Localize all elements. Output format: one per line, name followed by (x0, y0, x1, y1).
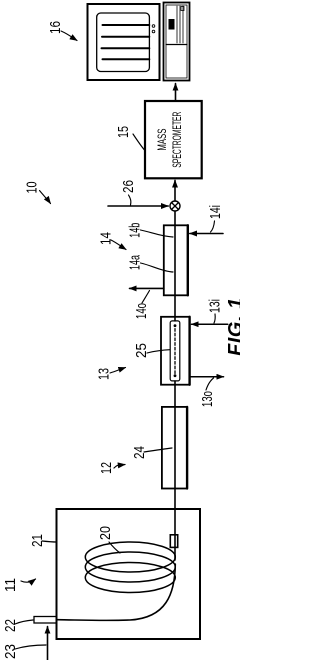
arrow for label 16 (61, 31, 77, 41)
injector fitting 22 on top of chamber (34, 617, 57, 624)
monitor button 1 (152, 30, 155, 33)
arrow for label 10 (40, 191, 51, 204)
monitor button 2 (152, 25, 155, 28)
leader for label 22 (15, 620, 33, 624)
leader for label 26 (129, 195, 131, 205)
svg-text:11: 11 (2, 578, 19, 592)
svg-text:14i: 14i (207, 205, 224, 219)
drive slot line 3 (182, 6, 184, 43)
wire: outlet arrow 14o out of top of box 14 (130, 287, 164, 289)
drive slot line 2 (179, 6, 181, 43)
column coil 20: ellipse 1 (85, 542, 175, 572)
svg-text:14: 14 (98, 232, 115, 245)
svg-text:23: 23 (2, 644, 19, 659)
arrow for label 11 (21, 579, 36, 582)
wire: capillary from coil to injector 22 (57, 564, 175, 620)
svg-text:16: 16 (47, 21, 64, 34)
screen trace line 1 (103, 24, 150, 26)
chamber box 11 (57, 509, 201, 639)
svg-text:12: 12 (98, 462, 115, 474)
wire: outlet arrow 13o out of bottom of box 13 (190, 376, 224, 378)
wire: inlet arrow 13i into bottom of box 13 (192, 323, 228, 325)
drive slot dark rect (169, 19, 175, 30)
case drive bay divider (166, 44, 187, 46)
leader for label 14a (141, 263, 174, 272)
leader for label 14i (211, 221, 215, 232)
svg-text:21: 21 (29, 534, 46, 547)
node: tube end dot left (174, 374, 177, 377)
leader for label 25 (147, 350, 170, 353)
box 12 (162, 407, 187, 489)
svg-text:FIG. 1: FIG. 1 (225, 297, 240, 356)
drive slot line 1 (176, 6, 178, 43)
leader for label 13o (206, 378, 214, 390)
box 14 (164, 225, 188, 295)
wire: capillary from tube 13 to mass spectrometer with arrow (174, 180, 176, 321)
svg-text:25: 25 (133, 343, 150, 358)
tube 25 inside box 13 (170, 321, 180, 381)
svg-text:10: 10 (24, 182, 41, 194)
column coil 20: ellipse 2 (85, 552, 175, 582)
svg-text:14o: 14o (133, 303, 150, 319)
leader for label 20 (109, 542, 120, 553)
computer 16: monitor (88, 4, 160, 80)
leader for label 24 (144, 448, 172, 452)
svg-text:SPECTROMETER: SPECTROMETER (172, 112, 184, 168)
valve 26 (circle with X) (170, 201, 180, 211)
box 12 thick bottom edge (186, 407, 188, 489)
svg-text:13: 13 (96, 368, 113, 380)
wire: dashed capillary inside tube 25 (174, 328, 176, 374)
wire: mass spectrometer to computer with arrow (175, 84, 177, 102)
svg-text:14a: 14a (127, 255, 144, 270)
fitting on capillary inside chamber (170, 535, 177, 548)
leader for label 15 (133, 134, 145, 150)
arrow for label 12 (114, 465, 125, 469)
leader for label 13i (214, 314, 215, 323)
svg-text:26: 26 (120, 180, 137, 193)
leader for label 14o (142, 291, 150, 304)
svg-text:24: 24 (131, 446, 148, 459)
svg-text:MASS: MASS (157, 128, 169, 150)
box 13 (161, 317, 190, 385)
svg-text:13i: 13i (207, 299, 224, 313)
monitor screen (97, 13, 150, 72)
node: tube end dot right (174, 324, 177, 327)
svg-text:13o: 13o (199, 391, 216, 407)
case inner border (166, 5, 187, 78)
leader for label 14b (141, 230, 174, 237)
leader for label 23 (15, 645, 46, 649)
wire: main capillary line, chamber to column-13 tube (174, 381, 176, 560)
screen trace line 2 (102, 36, 149, 38)
svg-text:20: 20 (97, 526, 114, 540)
screen trace line 3 (102, 47, 150, 49)
box 14 thick bottom edge (187, 225, 189, 295)
column coil 20: ellipse 3 (85, 563, 175, 593)
svg-text:22: 22 (2, 619, 19, 632)
wire: inlet arrow 14i into bottom of box 14 (190, 233, 223, 235)
leader for label 21 (42, 541, 56, 542)
drive small button (181, 7, 184, 11)
arrow for label 13 (110, 368, 126, 374)
mass spectrometer box 15 (145, 101, 202, 178)
wire: gas feed line into valve 26 with down arrow (108, 205, 168, 207)
computer 16: system case (164, 3, 190, 81)
screen trace line 4 (103, 58, 150, 60)
svg-text:15: 15 (115, 126, 132, 138)
wire: injection arrow 23 into fitting 22 (47, 627, 49, 660)
box 13 thick bottom edge (188, 317, 190, 385)
arrow for label 14 (111, 240, 126, 250)
